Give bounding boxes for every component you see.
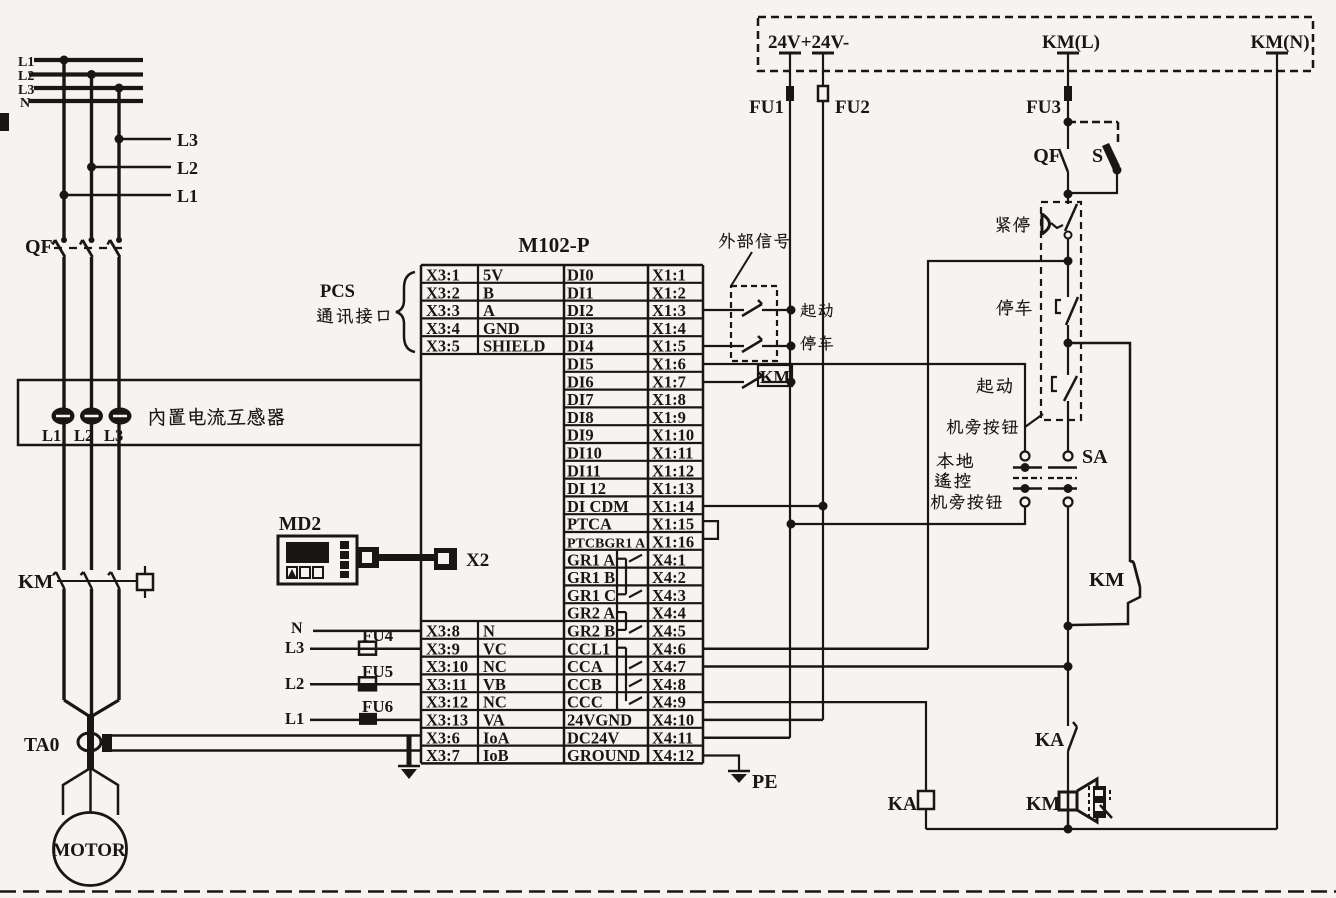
svg-text:L1: L1 xyxy=(18,55,34,70)
svg-text:SHIELD: SHIELD xyxy=(483,337,545,356)
ground PE xyxy=(728,771,778,793)
junction QF/S bottom xyxy=(1064,190,1073,199)
label PCS 通讯接口 (PCS comm interface) xyxy=(317,282,390,324)
svg-text:X1:2: X1:2 xyxy=(652,283,686,302)
contactor KM operator box xyxy=(137,566,153,598)
current transformer TA0 xyxy=(24,733,101,756)
svg-text:X3:9: X3:9 xyxy=(426,639,460,658)
svg-text:5V: 5V xyxy=(483,266,503,285)
svg-text:L2: L2 xyxy=(177,158,198,178)
svg-text:KA: KA xyxy=(888,794,917,815)
svg-text:CCL1: CCL1 xyxy=(567,639,610,658)
svg-text:DI 12: DI 12 xyxy=(567,479,606,498)
svg-text:KM: KM xyxy=(760,367,791,387)
svg-text:X3:7: X3:7 xyxy=(426,746,460,765)
wire bus L2 xyxy=(29,72,143,76)
label 外部信号 (external signal) + callout xyxy=(719,233,791,286)
node L2 tap xyxy=(87,158,198,178)
breaker QF pole 2 xyxy=(80,237,95,380)
wire phase A QF->KM xyxy=(62,380,65,570)
svg-text:KM(L): KM(L) xyxy=(1042,32,1100,53)
svg-text:GND: GND xyxy=(483,319,520,338)
connector MD2 plug xyxy=(357,547,379,568)
label 停车 (stop input) xyxy=(800,335,833,350)
label 停车 (stop button) xyxy=(996,299,1031,316)
svg-text:PCS: PCS xyxy=(320,282,355,302)
svg-text:X3:2: X3:2 xyxy=(426,283,460,302)
svg-text:KM(N): KM(N) xyxy=(1250,32,1309,53)
node L1 tap xyxy=(60,186,199,206)
svg-text:N: N xyxy=(291,620,303,637)
svg-text:X1:1: X1:1 xyxy=(652,266,686,285)
wire motor diverge right xyxy=(91,768,119,815)
svg-text:GROUND: GROUND xyxy=(567,746,640,765)
module M102-P terminal table frame xyxy=(421,265,703,763)
fuse FU6 xyxy=(285,697,421,728)
svg-text:X1:7: X1:7 xyxy=(652,372,686,391)
svg-text:X3:4: X3:4 xyxy=(426,319,460,338)
svg-text:X1:13: X1:13 xyxy=(652,479,694,498)
svg-text:DI7: DI7 xyxy=(567,390,594,409)
junction bus L3 / phase C feeder xyxy=(115,84,124,93)
pushbutton start (NO) xyxy=(1052,343,1077,452)
svg-text:MOTOR: MOTOR xyxy=(52,840,126,861)
coil KM (contactor coil) xyxy=(1026,779,1112,829)
svg-text:MD2: MD2 xyxy=(279,514,321,535)
current transformer CT L1 xyxy=(42,408,75,446)
fuse FU3 xyxy=(1026,86,1072,118)
svg-text:X1:11: X1:11 xyxy=(652,444,693,463)
svg-text:FU2: FU2 xyxy=(835,97,870,118)
svg-text:X3:5: X3:5 xyxy=(426,337,460,356)
junction +24V / SA common xyxy=(787,520,796,529)
wire phase C feeder xyxy=(117,88,120,241)
terminal strip box (dashed, to upper controller) xyxy=(758,17,1313,71)
svg-text:FU3: FU3 xyxy=(1026,97,1061,118)
fuse FU5 xyxy=(285,662,421,693)
junction bus L2 / phase B feeder xyxy=(87,70,96,79)
node L3 tap xyxy=(115,130,199,150)
svg-text:X3:13: X3:13 xyxy=(426,711,468,730)
module M102-P terminal labels xyxy=(426,266,694,766)
svg-text:X4:9: X4:9 xyxy=(652,693,686,712)
relay contacts CC (L1/A/B/C) xyxy=(617,648,642,704)
label 起动 (start input) xyxy=(800,303,832,318)
contact KM auxiliary (seal-in) xyxy=(1072,343,1140,625)
svg-text:KM: KM xyxy=(1089,569,1124,591)
terminal 24V+ xyxy=(779,53,801,86)
wire 24VGND X4:10 feed xyxy=(703,719,823,722)
svg-text:X2: X2 xyxy=(466,550,489,571)
svg-text:DC24V: DC24V xyxy=(567,728,619,747)
svg-text:X1:15: X1:15 xyxy=(652,515,694,534)
connector X2 xyxy=(434,548,489,571)
svg-text:X1:14: X1:14 xyxy=(652,497,694,516)
node N feed xyxy=(291,620,421,637)
wire CCA X4:7 to control node xyxy=(703,665,1068,668)
contact remote stop (X1:5) xyxy=(703,336,791,352)
junction CCA node xyxy=(1064,662,1073,671)
wire CCC X4:9 to KA coil xyxy=(703,702,926,791)
svg-text:CCB: CCB xyxy=(567,675,602,694)
svg-text:IoB: IoB xyxy=(483,746,509,765)
junction bus L1 / phase A feeder xyxy=(60,56,69,65)
svg-text:X1:3: X1:3 xyxy=(652,301,686,320)
svg-text:DI6: DI6 xyxy=(567,372,594,391)
wire 24V+ rail xyxy=(789,101,791,738)
label 机旁按钮 (station buttons) + callout xyxy=(947,414,1043,435)
relay contacts GR1 (A/B/C) xyxy=(617,555,642,598)
contactor KM linkage xyxy=(57,580,137,582)
switch S (parallel bypass) xyxy=(1068,122,1122,193)
label 内置电流互感器 (built-in current transformer) xyxy=(150,408,285,426)
breaker QF label xyxy=(25,236,53,258)
wire estop output to CCL1 (X4:6) xyxy=(703,261,1068,649)
svg-text:L3: L3 xyxy=(104,426,123,445)
net labels L1 L2 L3 N (incoming supply) xyxy=(18,55,34,111)
svg-text:DI1: DI1 xyxy=(567,283,594,302)
svg-text:KM: KM xyxy=(1026,793,1061,815)
wire phase A feeder xyxy=(62,60,65,241)
svg-text:X4:12: X4:12 xyxy=(652,746,694,765)
svg-text:X3:11: X3:11 xyxy=(426,675,467,694)
svg-text:N: N xyxy=(20,96,30,111)
external signal box (dashed) xyxy=(731,286,777,361)
svg-text:L2: L2 xyxy=(74,426,93,445)
junction start/+24V xyxy=(787,306,796,315)
ground (module 0V, below X3 block) xyxy=(398,736,420,780)
wire bus L3 xyxy=(34,86,143,90)
svg-text:SA: SA xyxy=(1082,446,1108,468)
svg-text:DI2: DI2 xyxy=(567,301,594,320)
svg-text:VA: VA xyxy=(483,711,505,730)
svg-text:NC: NC xyxy=(483,657,507,676)
wire phase C QF->KM xyxy=(117,380,120,570)
brace for PCS interface rows xyxy=(396,272,415,352)
svg-text:X3:8: X3:8 xyxy=(426,622,460,641)
wire X1:14 DI-common to 24V- xyxy=(703,505,823,507)
svg-text:VB: VB xyxy=(483,675,506,694)
svg-text:N: N xyxy=(483,622,495,641)
svg-text:B: B xyxy=(483,283,494,302)
svg-text:DI0: DI0 xyxy=(567,266,594,285)
svg-text:KM: KM xyxy=(18,571,53,593)
svg-text:DI3: DI3 xyxy=(567,319,594,338)
svg-text:TA0: TA0 xyxy=(24,735,59,756)
svg-text:GR2 B: GR2 B xyxy=(567,622,615,641)
svg-text:QF: QF xyxy=(25,236,53,258)
wire DC24V X4:11 feed xyxy=(703,736,790,739)
wire SA left bottom to +24V common xyxy=(791,507,1025,525)
contact remote start (NO, X1:3) xyxy=(703,300,791,316)
svg-text:KA: KA xyxy=(1035,730,1064,751)
contactor KM label xyxy=(18,571,53,593)
svg-text:L2: L2 xyxy=(285,674,304,693)
svg-text:X3:6: X3:6 xyxy=(426,728,460,747)
svg-text:DI CDM: DI CDM xyxy=(567,497,629,516)
svg-text:X1:12: X1:12 xyxy=(652,461,694,480)
junction DI-common/24V- xyxy=(819,502,828,511)
label 机旁按钮 (at SA) xyxy=(931,494,1002,510)
svg-text:DI4: DI4 xyxy=(567,337,594,356)
junction stop output xyxy=(1064,339,1073,348)
pushbutton box (dashed, 机旁按钮 station) xyxy=(1041,202,1081,420)
wire 24V- rail xyxy=(822,101,824,720)
junction estop output xyxy=(1064,257,1073,266)
wire phase B QF->KM xyxy=(90,380,93,570)
contactor KM pole 3 xyxy=(108,572,120,700)
wire SA right bottom down xyxy=(1067,507,1069,727)
label 起动 (start button) xyxy=(976,378,1012,394)
svg-text:DI11: DI11 xyxy=(567,461,601,480)
terminal KM(L) xyxy=(1042,32,1100,86)
selector switch SA xyxy=(1013,446,1108,507)
terminal KM(N) xyxy=(1250,32,1309,53)
svg-text:X4:5: X4:5 xyxy=(652,622,686,641)
wire MD2 cable xyxy=(375,554,437,561)
terminal 24V+ / 24V- labels xyxy=(768,32,849,53)
svg-text:DI9: DI9 xyxy=(567,426,594,445)
svg-text:X1:10: X1:10 xyxy=(652,426,694,445)
svg-text:L3: L3 xyxy=(285,638,304,657)
svg-text:VC: VC xyxy=(483,639,507,658)
svg-text:X3:10: X3:10 xyxy=(426,657,468,676)
wire motor center xyxy=(89,768,92,813)
svg-text:X3:3: X3:3 xyxy=(426,301,460,320)
svg-text:L3: L3 xyxy=(177,130,198,150)
svg-text:CCC: CCC xyxy=(567,693,603,712)
svg-text:NC: NC xyxy=(483,693,507,712)
junction KM-feedback/+24V xyxy=(787,378,796,387)
coil KA (relay coil) xyxy=(888,791,934,829)
svg-text:IoA: IoA xyxy=(483,728,510,747)
junction QF/S top xyxy=(1064,118,1073,127)
svg-text:X4:11: X4:11 xyxy=(652,728,693,747)
TA0 secondary terminal block xyxy=(102,734,112,752)
svg-text:DI8: DI8 xyxy=(567,408,594,427)
breaker QF pole 1 xyxy=(53,237,68,380)
svg-text:X4:3: X4:3 xyxy=(652,586,686,605)
svg-text:GR1 B: GR1 B xyxy=(567,568,615,587)
wire bus N xyxy=(29,99,143,103)
svg-text:X3:1: X3:1 xyxy=(426,266,460,285)
dashed border (bottom of scan) xyxy=(0,890,1336,893)
svg-text:M102-P: M102-P xyxy=(518,233,589,257)
switch QF (aux) xyxy=(1033,122,1068,194)
current transformer CT L3 xyxy=(104,408,132,446)
pushbutton emergency stop (mushroom NC) xyxy=(1042,194,1077,261)
wire TA0 secondary a (to X3:6) xyxy=(103,734,421,737)
svg-text:X4:6: X4:6 xyxy=(652,639,686,658)
svg-text:PE: PE xyxy=(752,771,778,793)
contact KA (interlock) xyxy=(1035,722,1077,791)
svg-text:A: A xyxy=(483,301,495,320)
fuse FU1 xyxy=(749,86,794,118)
svg-text:GR1 A: GR1 A xyxy=(567,550,615,569)
contactor KM pole 2 xyxy=(81,572,93,716)
current transformer CT L2 xyxy=(74,408,103,446)
svg-text:X4:10: X4:10 xyxy=(652,711,694,730)
fuse FU2 xyxy=(818,86,870,118)
svg-text:X4:4: X4:4 xyxy=(652,604,686,623)
svg-text:L1: L1 xyxy=(177,186,198,206)
svg-text:X1:9: X1:9 xyxy=(652,408,686,427)
label 遥控 (remote) xyxy=(935,472,971,488)
fuse FU4 xyxy=(285,626,421,657)
svg-text:L1: L1 xyxy=(285,709,304,728)
wire X1:6 to SA left top xyxy=(703,364,1025,452)
svg-text:24VGND: 24VGND xyxy=(567,711,632,730)
svg-text:FU1: FU1 xyxy=(749,97,784,118)
scan mark (left edge) xyxy=(0,113,9,131)
enclosure box (built-in current transformers) xyxy=(18,380,421,445)
svg-text:X1:16: X1:16 xyxy=(652,533,694,552)
junction KM coil / return xyxy=(1064,825,1073,834)
wire phase C converge xyxy=(91,700,120,717)
pushbutton stop (NC) xyxy=(1056,261,1078,343)
svg-text:X3:12: X3:12 xyxy=(426,693,468,712)
wire motor feeder (thick) xyxy=(87,714,94,769)
jumper bracket X1:15-X1:16 xyxy=(704,521,718,539)
wire bus L1 xyxy=(34,58,143,62)
wire bottom return to KM(N) xyxy=(926,828,1277,830)
svg-text:L1: L1 xyxy=(42,426,61,445)
svg-text:X4:7: X4:7 xyxy=(652,657,686,676)
wire KM(N) drop xyxy=(1276,53,1278,829)
motor M xyxy=(52,813,126,886)
operator panel MD2 xyxy=(278,514,357,584)
label 紧停 (emergency stop) xyxy=(996,216,1030,233)
contact KM feedback (X1:7) xyxy=(703,365,792,388)
svg-text:X4:1: X4:1 xyxy=(652,550,686,569)
svg-text:X4:8: X4:8 xyxy=(652,675,686,694)
wire phase B feeder xyxy=(90,75,93,242)
terminal 24V- xyxy=(812,53,834,86)
svg-text:QF: QF xyxy=(1033,145,1061,167)
svg-text:PTCBGR1 A: PTCBGR1 A xyxy=(567,537,646,552)
wire TA0 secondary b (to X3:7) xyxy=(103,749,421,752)
svg-text:GR2 A: GR2 A xyxy=(567,604,615,623)
svg-text:X1:6: X1:6 xyxy=(652,355,686,374)
junction KM-aux rejoin xyxy=(1064,622,1073,631)
svg-text:X1:5: X1:5 xyxy=(652,337,686,356)
wire FU3 to node xyxy=(1067,101,1069,122)
breaker QF linkage (dashed) xyxy=(54,247,124,249)
svg-text:PTCA: PTCA xyxy=(567,515,612,534)
label 本地 (local) xyxy=(936,452,973,469)
contactor KM pole 1 xyxy=(53,572,65,700)
svg-text:GR1 C: GR1 C xyxy=(567,586,616,605)
wire phase A converge xyxy=(64,700,91,717)
svg-text:S: S xyxy=(1092,145,1103,167)
svg-text:X4:2: X4:2 xyxy=(652,568,686,587)
module M102-P title xyxy=(518,233,589,257)
svg-text:X1:4: X1:4 xyxy=(652,319,686,338)
breaker QF pole 3 xyxy=(108,237,123,380)
relay contacts GR2 (A/B) xyxy=(617,612,642,633)
junction stop/+24V xyxy=(787,342,796,351)
wire motor diverge left xyxy=(63,768,91,815)
svg-text:CCA: CCA xyxy=(567,657,603,676)
wire GROUND X4:12 to PE xyxy=(703,756,739,772)
svg-text:DI5: DI5 xyxy=(567,355,594,374)
svg-text:24V+24V-: 24V+24V- xyxy=(768,32,849,53)
svg-text:DI10: DI10 xyxy=(567,444,602,463)
svg-text:X1:8: X1:8 xyxy=(652,390,686,409)
